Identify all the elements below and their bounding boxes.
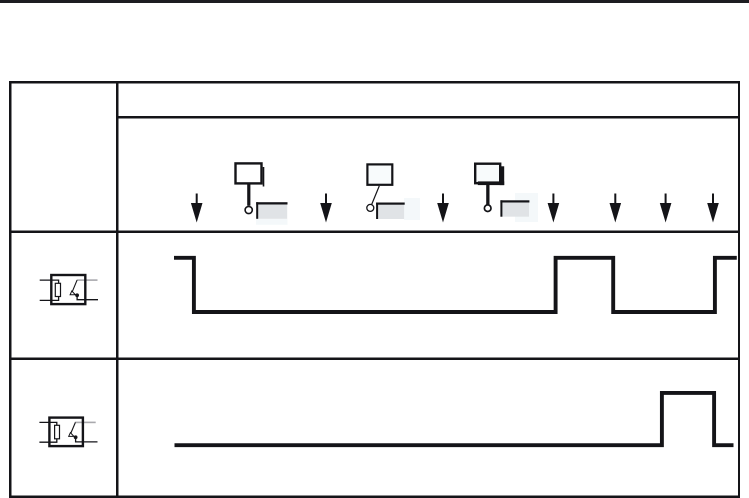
header bottom line: [9, 231, 740, 233]
table outer border top: [9, 81, 740, 83]
event arrow E6: [660, 194, 672, 223]
event arrow E4: [548, 194, 560, 223]
object pictogram S1 : sensor head over target: [236, 163, 288, 224]
event arrow E7: [707, 194, 719, 223]
event arrow E3: [437, 194, 449, 223]
event arrow E2: [320, 194, 332, 223]
output waveform row 2: [175, 393, 734, 445]
top header bar: [0, 0, 749, 3]
output waveform row 1: [174, 258, 737, 312]
column divider: [116, 81, 119, 498]
event arrow E5: [610, 194, 622, 223]
sensor output icon U2 (row 2 left): [39, 416, 97, 447]
table outer border right: [738, 81, 740, 498]
sub-header line: [116, 116, 740, 118]
object pictogram S3 : sensor head over target (bold shadow): [475, 164, 538, 222]
event arrow E1: [191, 194, 203, 223]
object pictogram S2 : sensor head swung away from target: [367, 164, 420, 220]
sensor output icon U1 (row 1 left): [40, 274, 98, 306]
row divider: [9, 358, 740, 360]
table outer border bottom: [9, 496, 740, 498]
table outer border left: [9, 81, 11, 498]
